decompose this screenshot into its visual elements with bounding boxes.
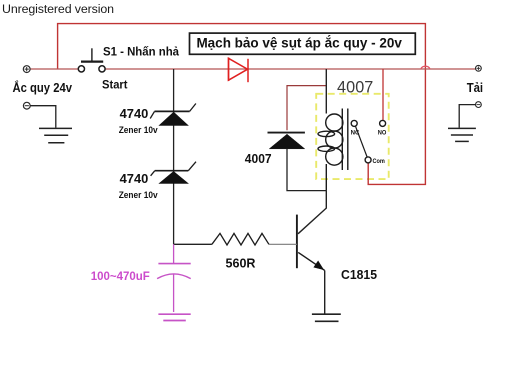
wire: diode 4007 top connection [287,86,326,131]
wire: main horizontal red wire left of switch [30,68,78,70]
relay contact Com [365,157,371,163]
wire: base [269,243,297,245]
relay arm [356,126,368,157]
wire: load minus to ground [459,105,475,128]
svg-text:Zener 10v: Zener 10v [119,190,158,200]
svg-text:4740: 4740 [120,107,149,121]
wire: diode anode down [287,149,326,191]
capacitor C1 [157,244,191,320]
wire: NO contact stub [382,69,384,120]
svg-text:Start: Start [102,78,128,92]
svg-text:Com: Com [373,158,385,165]
wire: emitter down [324,270,326,314]
zener diode Z1 4740 [150,104,196,119]
wire: top red bypass bus [58,24,426,185]
svg-text:NO: NO [378,130,387,137]
svg-text:Unregistered version: Unregistered version [2,2,114,16]
svg-text:Tải: Tải [467,81,483,95]
svg-text:4740: 4740 [120,172,149,186]
diode 4007 (flyback) [268,132,305,134]
svg-text:4007: 4007 [245,152,272,166]
svg-text:Zener 10v: Zener 10v [119,125,158,135]
wire: crossover hop at x=426 [421,66,430,69]
relay contact NC [351,120,357,126]
wire: collector [298,191,326,234]
wire: battery minus to ground [30,106,56,128]
svg-text:C1815: C1815 [341,268,377,282]
terminal battery minus [23,102,30,109]
relay contact NO [380,120,386,126]
wire: main horizontal red wire switch to load [105,68,475,70]
relay coil [318,114,343,191]
svg-text:100~470uF: 100~470uF [91,269,150,283]
relay outline box (yellow dashed) [316,94,389,179]
zener chain vertical wire [173,69,175,244]
ground transistor [312,314,341,321]
relay core [342,109,348,171]
transistor Q1 base bar [296,215,298,269]
wire: node to resistor [174,243,212,245]
switch S1 [78,48,105,72]
zener diode Z2 4740 [151,162,196,176]
svg-text:560R: 560R [226,257,256,271]
svg-text:Mạch bảo vệ sụt áp ắc quy - 20: Mạch bảo vệ sụt áp ắc quy - 20v [196,33,402,51]
svg-text:4007: 4007 [337,79,373,97]
ground battery [39,128,72,142]
terminal battery plus [23,66,30,73]
terminal load minus [476,102,482,108]
svg-text:S1 - Nhấn nhả: S1 - Nhấn nhả [103,44,179,58]
resistor R1 560R [212,233,269,245]
svg-text:Ắc quy 24v: Ắc quy 24v [13,80,73,95]
wire: relay coil feed [325,69,327,114]
emitter with arrow [298,252,325,270]
diode D1 red [229,58,249,83]
terminal load plus [476,65,482,71]
ground load [448,128,476,141]
title box [190,33,416,54]
